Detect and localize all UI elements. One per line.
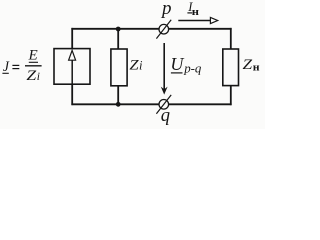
svg-text:н: н: [192, 7, 200, 18]
wire: left branch vertical (bottom): [71, 84, 73, 105]
wire: top right segment from terminal p to right branch corner: [169, 28, 232, 30]
wire: Zi branch vertical (bottom): [117, 86, 119, 105]
source formula: denominator Z with subscript i: [26, 68, 40, 84]
source formula: numerator E underlined: [28, 47, 39, 64]
wire: bottom right segment from terminal q to right branch corner: [169, 103, 232, 105]
label Zn: [243, 57, 260, 73]
wire: right branch vertical (top): [230, 28, 232, 50]
wire: top left segment from source branch to terminal p: [71, 28, 159, 30]
label Zi: [129, 57, 143, 73]
svg-text:Z: Z: [26, 68, 37, 84]
junction dot (bottom, node between source and Zi): [116, 102, 121, 107]
svg-text:q: q: [161, 106, 170, 126]
wire: left branch vertical (top): [71, 28, 73, 49]
source formula: equals sign: [12, 65, 19, 68]
svg-text:U: U: [170, 54, 184, 74]
wire: Zi branch vertical (top): [117, 29, 119, 50]
svg-text:i: i: [37, 71, 40, 83]
svg-text:Z: Z: [129, 57, 139, 73]
svg-text:p-q: p-q: [183, 60, 202, 75]
resistor Zi (impedance rectangle): [111, 49, 127, 86]
svg-text:E: E: [28, 47, 39, 64]
current arrow I_n (load current, open arrowhead): [178, 17, 217, 23]
svg-text:i: i: [139, 58, 143, 72]
wire: right branch vertical (bottom): [230, 86, 232, 106]
label U_p-q (underlined U with subscript p-q): [170, 54, 201, 75]
label q: [161, 106, 170, 126]
source formula: fraction bar: [25, 65, 42, 67]
resistor Zn (load impedance rectangle): [223, 49, 239, 86]
junction dot (top, node between source and Zi): [116, 27, 121, 32]
label I_n (underlined I with Cyrillic subscript): [187, 0, 199, 18]
svg-text:p: p: [160, 0, 172, 19]
terminal q (circle with slash): [156, 95, 171, 114]
voltage arrow U_p-q (downward, filled head): [161, 43, 168, 95]
source formula J = E / Zi : J underlined: [2, 59, 9, 75]
current source J (rectangle with upward open arrow): [54, 49, 90, 85]
label p: [160, 0, 172, 19]
svg-text:н: н: [253, 62, 260, 73]
wire: bottom left segment from source branch to terminal q: [71, 103, 159, 105]
svg-text:Z: Z: [243, 57, 253, 73]
svg-text:J: J: [3, 59, 10, 75]
terminal p (circle with slash): [156, 20, 171, 39]
